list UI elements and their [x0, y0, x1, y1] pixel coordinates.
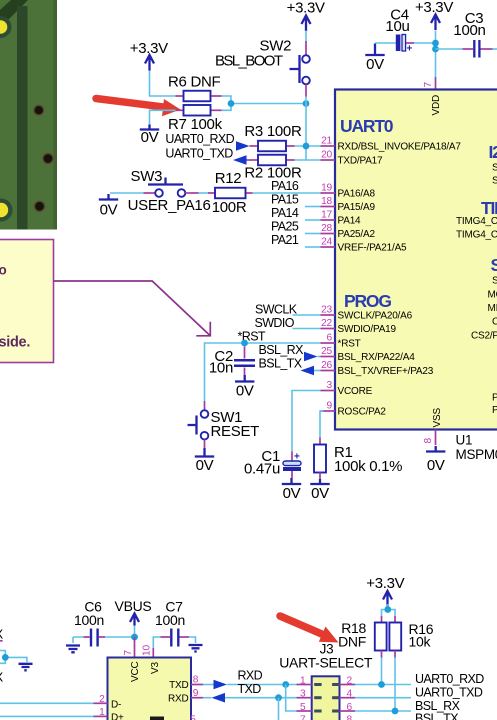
junction VDD/C4	[432, 40, 439, 47]
svg-text:0V: 0V	[100, 202, 118, 219]
junction R3/SW2 net	[303, 143, 310, 150]
svg-text:0V: 0V	[196, 457, 214, 474]
svg-text:17: 17	[321, 210, 332, 221]
wire +3.3V to R6	[150, 71, 176, 97]
svg-text:0V: 0V	[236, 383, 254, 400]
J3 pins 5/6	[297, 702, 356, 713]
ground 0V (SW1)	[195, 448, 214, 474]
svg-text:SCK: SCK	[492, 276, 497, 287]
svg-text:R7 100k: R7 100k	[168, 116, 223, 133]
net label PA14	[271, 206, 321, 220]
U1 pin 24 VREF-/PA21/A5	[321, 237, 408, 254]
resistor R6	[168, 74, 222, 102]
pin 7 VDD	[423, 77, 436, 90]
cut pin stub at left edge	[0, 640, 3, 642]
svg-text:U1: U1	[456, 433, 473, 448]
svg-text:X: X	[0, 627, 4, 642]
USB IC pin 1 D+	[0, 707, 108, 718]
svg-text:VDD: VDD	[431, 95, 442, 116]
junction VDD/C3	[432, 46, 439, 53]
svg-text:7: 7	[300, 714, 306, 720]
svg-text:9: 9	[327, 401, 333, 412]
net label UART0_RXD	[165, 132, 249, 151]
svg-text:4: 4	[347, 689, 353, 700]
svg-text:0V: 0V	[283, 485, 301, 502]
svg-text:TIMG4_CCP1: TIMG4_CCP1	[456, 230, 497, 241]
net UART0_TXD (J3 pin4)	[355, 686, 483, 700]
svg-text:RXD: RXD	[238, 669, 263, 683]
net UART0_RXD (J3 pin2)	[355, 672, 484, 688]
U1 TIMERS section (cut)	[456, 198, 497, 241]
svg-text:0.47u: 0.47u	[244, 461, 280, 478]
wire R7 to 0V	[150, 110, 176, 125]
resistor R1	[314, 438, 402, 480]
svg-text:BSL_RX/PA22/A4: BSL_RX/PA22/A4	[338, 352, 416, 363]
svg-text:DNF: DNF	[338, 634, 366, 650]
svg-text:19: 19	[321, 183, 332, 194]
wire +3.3V VDD rail	[435, 31, 437, 78]
U1 pin 26 BSL_TX/VREF+/PA23	[321, 360, 434, 377]
svg-text:PB2: PB2	[492, 393, 497, 404]
svg-text:9: 9	[193, 688, 199, 699]
wire R6/R7 right join	[222, 96, 307, 110]
ground 0V (SW3)	[99, 194, 118, 219]
svg-text:0V: 0V	[141, 129, 159, 146]
svg-text:MSPM0L1106: MSPM0L1106	[456, 447, 497, 462]
wire R18 to UART0_RXD	[381, 658, 383, 685]
svg-text:6: 6	[327, 333, 333, 344]
svg-text:PA15: PA15	[271, 193, 299, 207]
svg-text:+: +	[407, 44, 413, 55]
U1 SPI section (cut)	[471, 255, 497, 416]
svg-text:D+: D+	[111, 713, 124, 720]
svg-text:1: 1	[99, 707, 105, 718]
svg-text:TIMERS: TIMERS	[481, 198, 497, 218]
svg-text:RXD/BSL_INVOKE/PA18/A7: RXD/BSL_INVOKE/PA18/A7	[338, 142, 462, 153]
net label BSL_TX	[259, 357, 321, 376]
svg-text:PB2: PB2	[492, 405, 497, 416]
svg-text:VCC: VCC	[130, 661, 141, 682]
switch SW2	[215, 31, 310, 161]
wire R12 to pin19	[253, 192, 321, 194]
svg-text:PA16/A8: PA16/A8	[338, 189, 376, 200]
svg-text:UART0_RXD: UART0_RXD	[415, 672, 484, 686]
svg-text:8: 8	[193, 675, 199, 686]
net BSL_RX (J3 pin6)	[355, 699, 461, 714]
svg-text:D-: D-	[111, 700, 121, 711]
svg-text:SDA: SDA	[492, 163, 497, 174]
svg-text:PA14: PA14	[271, 206, 299, 220]
svg-text:UART0_TXD: UART0_TXD	[165, 146, 233, 160]
svg-text:5: 5	[300, 702, 306, 713]
svg-text:PA21: PA21	[271, 233, 299, 247]
svg-text:o: o	[0, 263, 7, 278]
J3 pins 7/8	[300, 714, 352, 720]
U1 pin 19 PA16/A8	[321, 183, 376, 200]
svg-text:25: 25	[321, 346, 332, 357]
svg-text:USER_PA16: USER_PA16	[128, 197, 211, 214]
svg-text:PA16: PA16	[271, 179, 299, 193]
MCU U1 body	[335, 90, 497, 430]
capacitor C3	[436, 10, 497, 58]
svg-text:23: 23	[321, 305, 332, 316]
svg-text:BSL_TX: BSL_TX	[259, 357, 303, 371]
svg-text:TXD: TXD	[169, 680, 188, 691]
capacitor C2	[209, 347, 255, 377]
wire R2 to pin20	[295, 159, 321, 161]
svg-text:PA14: PA14	[338, 216, 362, 227]
U1 pin 25 BSL_RX/PA22/A4	[321, 346, 416, 363]
svg-text:10: 10	[142, 645, 153, 656]
power +3.3V (SW2)	[287, 0, 325, 31]
svg-text:TXD: TXD	[238, 682, 262, 696]
U1 pin 3 VCORE	[321, 380, 373, 397]
svg-text:1: 1	[300, 675, 306, 686]
svg-text:0V: 0V	[311, 485, 329, 502]
wire R16 to BSL_RX	[394, 658, 396, 712]
U1 pin 17 PA14	[321, 210, 362, 227]
svg-text:X: X	[0, 670, 4, 685]
resistor R3	[244, 123, 302, 151]
resistor R18 (DNF)	[338, 616, 386, 658]
ground 0V (C4)	[365, 44, 384, 74]
net label SWCLK	[255, 303, 321, 317]
power +3.3V (R6)	[130, 40, 168, 71]
power +3.3V (VDD)	[415, 0, 453, 30]
wire R3 to pin21	[295, 145, 321, 147]
net TXD (USB RXD to J3)	[203, 682, 297, 720]
svg-text:3: 3	[327, 380, 333, 391]
U1 pin 8 VSS	[423, 430, 436, 446]
U1 reference	[456, 433, 497, 463]
U1 pin 20 TXD/PA17	[321, 150, 384, 167]
wire ROSC to R1	[320, 411, 324, 438]
svg-text:PA15/A9: PA15/A9	[338, 202, 376, 213]
svg-text:VBUS: VBUS	[115, 598, 152, 614]
svg-text:R3 100R: R3 100R	[244, 123, 302, 140]
svg-text:SWDIO/PA19: SWDIO/PA19	[338, 324, 397, 335]
svg-text:SCL: SCL	[492, 176, 497, 187]
svg-text:VSS: VSS	[432, 408, 443, 428]
svg-text:2: 2	[99, 694, 105, 705]
svg-text:+3.3V: +3.3V	[415, 0, 453, 16]
wire *RST	[205, 343, 321, 401]
wire SW3 to R12	[199, 192, 209, 194]
ground 0V (C2)	[235, 375, 254, 400]
svg-text:21: 21	[321, 136, 332, 147]
svg-text:PA25/A2: PA25/A2	[338, 229, 376, 240]
ground 0V (R1)	[310, 479, 329, 502]
svg-text:100n: 100n	[453, 22, 485, 39]
svg-text:UART0: UART0	[340, 116, 394, 136]
net label PA25	[271, 220, 321, 234]
resistor R12	[208, 170, 253, 216]
switch SW1	[188, 401, 260, 448]
U1 pin 18 PA15/A9	[321, 196, 376, 213]
svg-text:20: 20	[321, 150, 332, 161]
ground (C6)	[66, 646, 80, 653]
resistor R16	[389, 616, 433, 658]
svg-text:MISO: MISO	[488, 303, 497, 314]
svg-text:22: 22	[321, 318, 332, 329]
svg-text:6: 6	[347, 702, 353, 713]
svg-text:SPI: SPI	[491, 255, 497, 275]
ground 0V (VSS)	[426, 446, 445, 474]
svg-text:7: 7	[123, 650, 134, 656]
junction *RST/C2	[241, 340, 248, 347]
J3 pins 1/2	[297, 675, 356, 686]
left edge net with ground	[0, 651, 33, 671]
svg-text:0V: 0V	[427, 457, 445, 474]
svg-text:*RST: *RST	[338, 339, 361, 350]
svg-text:PROG: PROG	[344, 291, 391, 311]
svg-text:VCORE: VCORE	[338, 386, 373, 397]
ground 0V (C1)	[282, 478, 301, 502]
wire VCORE to C1	[292, 391, 321, 452]
capacitor C1	[244, 448, 301, 478]
U1 I2C section (cut)	[489, 142, 497, 187]
ground 0V (R7)	[140, 125, 159, 147]
U1 pin 22 SWDIO/PA19	[321, 318, 397, 335]
power VBUS	[115, 598, 152, 637]
svg-text:5: 5	[190, 715, 196, 720]
J3 pins 3/4	[297, 689, 356, 700]
red annotation arrow 2 (points at R18)	[280, 616, 339, 643]
svg-text:SWCLK: SWCLK	[255, 303, 298, 317]
svg-text:MOSI: MOSI	[488, 290, 497, 301]
capacitor C4	[375, 7, 436, 55]
pin 10 V3 stub	[142, 645, 154, 658]
net label PA21	[271, 233, 321, 247]
switch SW3	[110, 168, 211, 214]
svg-text:side.: side.	[0, 335, 30, 351]
resistor R7	[168, 105, 223, 133]
svg-text:TIMG4_CCP0: TIMG4_CCP0	[456, 216, 497, 227]
net RXD (USB TXD to J3)	[203, 669, 297, 712]
svg-text:PA25: PA25	[271, 220, 299, 234]
PCB photo fragment	[0, 0, 57, 230]
net label PA15	[271, 193, 321, 207]
svg-text:3: 3	[300, 689, 306, 700]
svg-text:I2C: I2C	[489, 142, 497, 162]
svg-text:26: 26	[321, 360, 332, 371]
svg-text:SW3: SW3	[131, 168, 163, 185]
U1 pin 21 RXD/BSL_INVOKE/PA18/A7	[321, 136, 462, 153]
svg-text:SWDIO: SWDIO	[255, 316, 295, 330]
svg-text:UART-SELECT: UART-SELECT	[279, 655, 373, 671]
pin 7 VCC stub	[123, 637, 135, 658]
junction VBUS/VCC	[131, 634, 138, 641]
U1 pin 23 SWCLK/PA20/A6	[321, 305, 413, 322]
svg-text:BSL_RX: BSL_RX	[259, 343, 305, 357]
svg-text:100n: 100n	[74, 612, 104, 628]
U1 pin 6 *RST	[321, 333, 361, 350]
resistor R2	[244, 155, 302, 182]
svg-text:V3: V3	[150, 662, 161, 674]
svg-text:0V: 0V	[366, 56, 384, 73]
svg-text:VREF-/PA21/A5: VREF-/PA21/A5	[338, 243, 408, 254]
svg-text:TXD/PA17: TXD/PA17	[338, 156, 384, 167]
svg-text:28: 28	[321, 223, 332, 234]
svg-text:10n: 10n	[209, 360, 233, 377]
svg-text:UART0_RXD: UART0_RXD	[165, 132, 234, 146]
svg-text:7: 7	[423, 82, 434, 88]
svg-text:10u: 10u	[385, 18, 409, 35]
svg-text:UART0_TXD: UART0_TXD	[415, 686, 483, 700]
USB IC pin 8 TXD	[191, 675, 203, 686]
net label UART0_TXD	[165, 146, 246, 165]
U1 pin 9 ROSC/PA2	[321, 401, 387, 418]
power +3.3V (R18/R16)	[366, 575, 404, 607]
net label BSL_RX	[259, 343, 321, 361]
connector J3 UART-SELECT	[279, 642, 373, 720]
capacitor C7	[153, 599, 195, 649]
svg-text:SWCLK/PA20/A6: SWCLK/PA20/A6	[338, 311, 413, 322]
svg-text:24: 24	[321, 237, 332, 248]
red annotation arrow 1 (points at R6/R7)	[96, 99, 181, 117]
svg-text:ROSC/PA2: ROSC/PA2	[338, 407, 387, 418]
junction R6/R7	[228, 100, 235, 107]
svg-text:CLK: CLK	[492, 317, 497, 328]
callout line to *RST	[54, 281, 211, 336]
U1 pin 28 PA25/A2	[321, 223, 376, 240]
capacitor C6	[73, 599, 135, 647]
USB IC pin 9 RXD	[191, 688, 203, 699]
junction R18/R16 rail	[384, 606, 391, 613]
svg-text:+3.3V: +3.3V	[366, 575, 404, 592]
svg-text:R12: R12	[215, 170, 242, 187]
svg-text:2: 2	[347, 675, 353, 686]
svg-text:BSL_BOOT: BSL_BOOT	[215, 53, 283, 70]
junction SW2/bus	[303, 100, 310, 107]
svg-text:RESET: RESET	[211, 423, 260, 440]
svg-text:100n: 100n	[155, 612, 185, 628]
note box	[0, 240, 54, 363]
svg-text:100k 0.1%: 100k 0.1%	[334, 458, 402, 475]
USB IC pin 2 D-	[0, 694, 108, 705]
svg-text:BSL_TX/VREF+/PA23: BSL_TX/VREF+/PA23	[338, 366, 434, 377]
svg-text:10k: 10k	[409, 634, 432, 650]
svg-text:R6 DNF: R6 DNF	[168, 74, 221, 91]
ground (C7)	[189, 645, 203, 652]
wire +3.3V to R18/R16	[382, 604, 396, 616]
svg-text:BSL_TX: BSL_TX	[415, 712, 459, 720]
svg-text:100R: 100R	[212, 199, 247, 216]
svg-text:CS2/PB: CS2/PB	[471, 331, 497, 342]
USB bridge IC body	[108, 658, 192, 720]
svg-text:18: 18	[321, 196, 332, 207]
svg-text:8: 8	[347, 714, 353, 720]
net label SWDIO	[255, 316, 321, 330]
svg-text:8: 8	[423, 438, 434, 444]
svg-text:RXD: RXD	[168, 693, 189, 704]
